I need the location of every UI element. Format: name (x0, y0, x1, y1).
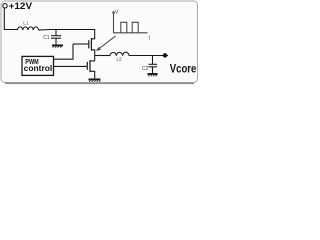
svg-text:Vcore: Vcore (170, 61, 197, 75)
svg-text:C2: C2 (142, 66, 149, 72)
svg-text:V: V (115, 10, 119, 16)
svg-text:C1: C1 (43, 35, 50, 41)
svg-text:L2: L2 (117, 57, 123, 62)
svg-text:L1: L1 (23, 20, 29, 25)
svg-text:control: control (24, 64, 53, 73)
svg-text:+12V: +12V (9, 1, 33, 11)
